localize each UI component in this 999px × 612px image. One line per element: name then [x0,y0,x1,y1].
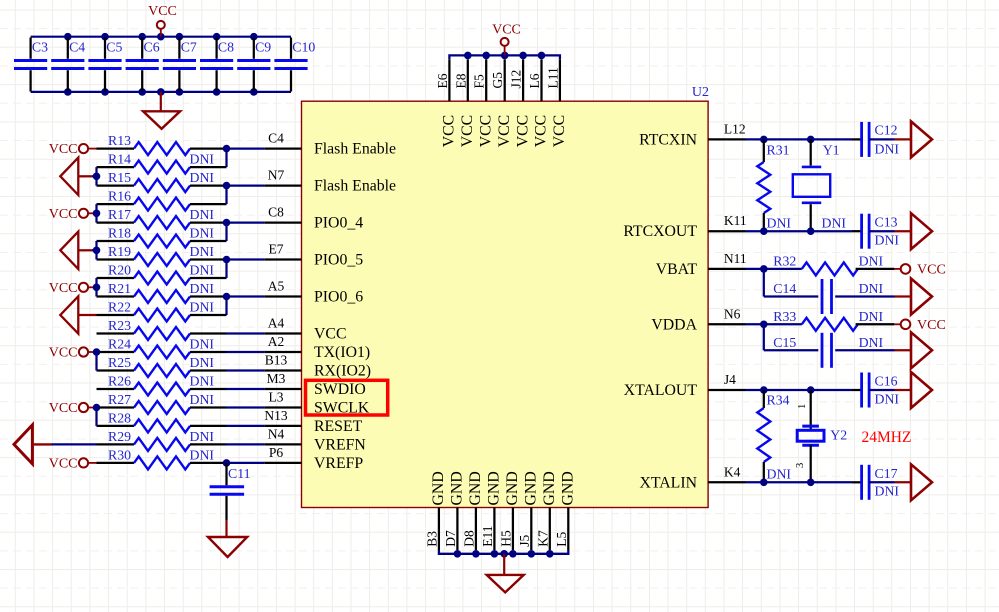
svg-text:DNI: DNI [875,142,900,157]
svg-text:R28: R28 [108,410,131,425]
svg-text:C3: C3 [32,40,48,55]
svg-text:J12: J12 [509,70,524,89]
pin L3 (SWCLK) [264,390,370,417]
svg-text:VCC: VCC [514,115,531,147]
pin K7 (GND) [535,471,558,550]
capacitor C4 [51,38,85,92]
svg-text:C12: C12 [875,123,898,138]
svg-text:VCC: VCC [917,318,946,333]
svg-text:GND: GND [504,471,521,505]
svg-text:VCC: VCC [441,115,458,147]
wire C12 to port [869,138,911,140]
svg-text:RX(IO2): RX(IO2) [314,363,371,380]
svg-text:PIO0_5: PIO0_5 [314,252,363,269]
svg-text:E8: E8 [453,73,468,88]
svg-text:GND: GND [467,471,484,505]
svg-text:U2: U2 [692,85,709,100]
pin E11 (GND) [480,471,503,550]
resistor R14 [97,152,227,174]
svg-text:XTALOUT: XTALOUT [624,382,698,399]
svg-text:TX(IO1): TX(IO1) [314,344,370,361]
svg-text:R26: R26 [108,374,131,389]
pin A2 (TX(IO1)) [264,334,370,361]
wire net N7 (pair junction) [223,182,265,204]
svg-text:C4: C4 [69,40,85,55]
svg-text:C13: C13 [875,215,898,230]
resistor R18 [97,226,227,248]
svg-text:Flash Enable: Flash Enable [314,178,396,195]
wire net L3 [227,406,265,408]
capacitor C6 [126,38,160,92]
svg-text:R25: R25 [108,355,131,370]
svg-text:F5: F5 [472,74,487,89]
svg-text:DNI: DNI [822,216,847,231]
pin P6 (VREFP) [264,445,363,472]
svg-text:DNI: DNI [190,392,215,407]
pin K11 (RTCXOUT) [623,213,746,240]
svg-text:DNI: DNI [875,233,900,248]
ground (bottom) [487,554,524,593]
wire net B13 [227,369,265,371]
port arrow (RTCXIN) [911,121,932,157]
svg-text:A5: A5 [268,279,285,294]
svg-text:VCC: VCC [496,115,513,147]
pin E7 (PIO0_5) [264,242,363,269]
svg-text:J5: J5 [517,535,532,547]
svg-text:DNI: DNI [875,392,900,407]
svg-text:DNI: DNI [875,484,900,499]
pin H5 (GND) [498,471,521,550]
svg-text:DNI: DNI [190,355,215,370]
capacitor C14 [764,279,884,314]
wire net A5 (pair junction) [223,293,265,315]
capacitor C3 [14,38,48,92]
VCC port (R32) [894,263,945,278]
svg-text:VCC: VCC [533,115,550,147]
pin E8 (VCC) [453,59,476,147]
svg-text:VCC: VCC [459,115,476,147]
wire C16 to port [869,389,911,391]
port arrow (C15) [911,332,932,368]
svg-text:GND: GND [449,471,466,505]
svg-text:C5: C5 [106,40,122,55]
input arrow port (R14/R15) [60,158,100,195]
svg-text:GND: GND [486,471,503,505]
svg-text:P6: P6 [269,445,284,460]
svg-text:VCC: VCC [492,23,521,38]
svg-text:M3: M3 [267,371,286,386]
pin number 3 (Y2) [795,463,806,468]
svg-text:DNI: DNI [859,335,884,350]
svg-text:GND: GND [430,471,447,505]
resistor R34 [757,390,791,482]
svg-text:R14: R14 [108,152,131,167]
svg-text:C9: C9 [255,40,271,55]
pin L5 (GND) [554,471,577,550]
svg-text:C8: C8 [268,205,284,220]
svg-text:DNI: DNI [859,281,884,296]
svg-text:N4: N4 [268,426,285,441]
svg-text:R27: R27 [108,392,131,407]
svg-text:DNI: DNI [767,467,792,482]
svg-text:C16: C16 [875,374,898,389]
pin C8 (PIO0_4) [264,205,363,232]
svg-text:DNI: DNI [190,263,215,278]
svg-text:VCC: VCC [314,326,346,343]
wire GND bottom bus [439,550,568,558]
wire net P6 [227,462,265,464]
svg-text:PIO0_6: PIO0_6 [314,289,363,306]
svg-text:Flash Enable: Flash Enable [314,141,396,158]
VCC port (R20/R21) [49,278,101,297]
svg-text:Y1: Y1 [823,143,840,158]
svg-text:B3: B3 [424,531,439,547]
svg-text:N11: N11 [724,251,747,266]
wire C17 to port [869,481,911,483]
svg-text:R34: R34 [767,393,790,408]
wire net VBAT [746,265,802,296]
svg-text:L11: L11 [545,67,560,88]
pin A4 (VCC) [264,316,346,343]
wire net N13 [227,425,265,427]
svg-text:K11: K11 [724,213,747,228]
pin M3 (SWDIO) [264,371,366,398]
port arrow (C14) [911,279,932,315]
svg-text:C7: C7 [181,40,197,55]
svg-text:C17: C17 [875,466,898,481]
capacitor C5 [88,38,122,92]
wire net RTCXIN [746,136,862,144]
capacitor C7 [163,38,197,92]
svg-text:DNI: DNI [190,300,215,315]
pin J4 (XTALOUT) [624,372,746,399]
resistor R33 [773,309,894,331]
pin K4 (XTALIN) [639,464,745,491]
crystal Y1 [793,139,847,231]
svg-text:R24: R24 [108,337,131,352]
wire net N4 [227,443,265,445]
pin N11 (VBAT) [656,251,747,278]
svg-text:R16: R16 [108,189,131,204]
resistor R28 [97,410,227,432]
resistor R24 [97,337,227,359]
svg-text:C11: C11 [228,466,251,481]
input arrow port (R22) [60,296,96,333]
pin J5 (GND) [517,471,540,550]
capacitor C9 [237,38,271,92]
svg-text:VCC: VCC [917,263,946,278]
svg-text:VREFN: VREFN [314,436,366,453]
svg-text:R13: R13 [108,133,131,148]
svg-text:DNI: DNI [190,226,215,241]
resistor R27 [97,392,227,414]
svg-text:L5: L5 [554,532,569,547]
svg-text:PIO0_4: PIO0_4 [314,215,363,232]
svg-text:VCC: VCC [49,401,78,416]
svg-text:VCC: VCC [551,115,568,147]
wire net VDDA [746,321,802,351]
svg-text:L12: L12 [724,121,746,136]
svg-text:A2: A2 [268,334,285,349]
svg-text:DNI: DNI [190,170,215,185]
svg-text:DNI: DNI [190,207,215,222]
svg-text:DNI: DNI [190,374,215,389]
svg-text:DNI: DNI [190,152,215,167]
svg-text:RTCXIN: RTCXIN [639,131,697,148]
svg-text:VDDA: VDDA [651,316,697,333]
wire C15 to port [835,349,911,351]
svg-text:1: 1 [797,404,808,409]
pin D7 (GND) [443,471,466,550]
VCC port (R13) [49,142,97,157]
svg-text:24MHZ: 24MHZ [862,429,912,446]
pin C4 (Flash Enable) [264,131,396,158]
svg-text:GND: GND [560,471,577,505]
svg-text:VCC: VCC [49,281,78,296]
pin N13 (RESET) [264,408,362,435]
svg-text:R22: R22 [108,300,131,315]
svg-text:DNI: DNI [190,337,215,352]
svg-text:DNI: DNI [859,309,884,324]
resistor R16 [97,189,227,211]
svg-text:DNI: DNI [859,253,884,268]
svg-text:VCC: VCC [49,207,78,222]
svg-text:C8: C8 [218,40,234,55]
crystal Y2 [797,390,847,482]
pin N6 (VDDA) [651,306,745,333]
capacitor C10 [274,38,315,92]
wire net XTALOUT [746,386,862,394]
input arrow port (R29) [14,425,97,464]
capacitor C13 [862,214,900,249]
wire net C4 (pair junction) [223,145,265,167]
wire junction (VREFP/C11) [223,459,231,467]
svg-text:G5: G5 [490,72,505,89]
svg-text:L3: L3 [269,390,284,405]
wire C14 to port [835,295,911,297]
VCC port (R24/R25) [49,346,101,371]
VCC port (R33) [894,318,945,333]
port arrow (XTALIN) [911,464,932,500]
pin A5 (PIO0_6) [264,279,363,306]
svg-text:N13: N13 [264,408,287,423]
svg-text:R33: R33 [773,309,796,324]
VCC port (R30) [49,456,97,471]
resistor R21 [97,281,227,303]
svg-text:C6: C6 [144,40,160,55]
svg-text:C15: C15 [773,335,796,350]
wire net E7 (pair junction) [223,256,265,278]
svg-text:DNI: DNI [190,244,215,259]
pin N7 (Flash Enable) [264,168,396,195]
svg-text:B13: B13 [265,353,288,368]
svg-text:E11: E11 [480,526,495,547]
svg-text:H5: H5 [498,530,513,547]
VCC power port (top) [492,23,521,56]
svg-text:VCC: VCC [49,142,78,157]
pin F5 (VCC) [472,59,495,147]
svg-text:VCC: VCC [148,4,177,19]
svg-text:DNI: DNI [190,447,215,462]
resistor R32 [773,253,894,275]
svg-text:A4: A4 [268,316,285,331]
svg-text:N6: N6 [724,306,741,321]
svg-text:VCC: VCC [49,456,78,471]
wire net RTCXOUT [746,227,862,235]
VCC port (R16/R17) [49,204,101,223]
ground (cap bank) [143,92,180,129]
wire C13 to port [869,230,911,232]
wire net A2 [227,351,265,353]
wire net C8 (pair junction) [223,219,265,241]
capacitor C8 [200,38,234,92]
resistor R29 [97,429,227,451]
pin D8 (GND) [461,471,484,550]
svg-text:GND: GND [541,471,558,505]
svg-text:N7: N7 [268,168,285,183]
svg-text:J4: J4 [724,372,736,387]
wire net XTALIN [746,479,862,487]
wire VCC rail (cap bank top) [31,33,291,41]
pin E6 (VCC) [435,59,458,147]
IC U2 body [302,85,710,508]
svg-text:DNI: DNI [767,216,792,231]
pin N4 (VREFN) [264,426,366,453]
svg-text:RTCXOUT: RTCXOUT [623,223,697,240]
pin B13 (RX(IO2)) [264,353,371,380]
svg-text:D7: D7 [443,530,458,547]
wire net A4 [227,332,265,334]
svg-text:SWDIO: SWDIO [314,381,366,398]
svg-text:Y2: Y2 [830,428,847,443]
label 24MHZ [862,429,912,446]
svg-text:R23: R23 [108,318,131,333]
pin B3 (GND) [424,471,447,550]
VCC power port (cap bank) [148,4,177,37]
svg-text:3: 3 [795,463,806,468]
resistor R15 [97,170,227,192]
resistor R19 [97,244,227,266]
svg-text:C14: C14 [773,281,796,296]
pin number 1 (Y2) [797,404,808,409]
input arrow port (R18/R19) [60,232,100,269]
capacitor C11 [210,463,251,521]
svg-text:GND: GND [523,471,540,505]
pin L12 (RTCXIN) [639,121,746,148]
svg-text:R19: R19 [108,244,131,259]
wire net M3 [227,388,265,390]
svg-text:R31: R31 [767,143,790,158]
resistor R13 [97,133,227,155]
resistor R31 [757,139,791,231]
resistor R23 [97,318,227,340]
svg-text:VREFP: VREFP [314,455,363,472]
resistor R30 [97,447,227,469]
svg-text:XTALIN: XTALIN [639,474,697,491]
pin L11 (VCC) [545,59,568,147]
svg-text:R21: R21 [108,281,131,296]
svg-text:VCC: VCC [49,346,78,361]
svg-text:DNI: DNI [190,429,215,444]
svg-text:C10: C10 [292,40,315,55]
capacitor C12 [862,122,900,157]
svg-text:E6: E6 [435,73,450,88]
svg-text:VBAT: VBAT [656,261,698,278]
resistor R17 [97,207,227,229]
resistor R26 [97,374,227,396]
svg-text:C4: C4 [268,131,284,146]
svg-text:DNI: DNI [190,281,215,296]
pin L6 (VCC) [527,59,550,147]
resistor R25 [97,355,227,377]
svg-text:R20: R20 [108,263,131,278]
svg-text:E7: E7 [269,242,284,257]
port arrow (XTALOUT) [911,372,932,408]
svg-text:VCC: VCC [477,115,494,147]
svg-text:R15: R15 [108,170,131,185]
capacitor C16 [862,373,900,408]
svg-text:L6: L6 [527,73,542,88]
wire GND rail (cap bank bottom) [31,88,291,96]
capacitor C17 [862,465,900,500]
svg-text:RESET: RESET [314,418,363,435]
svg-text:R30: R30 [108,447,131,462]
highlight box SWDIO/SWCLK [306,380,388,415]
svg-text:R17: R17 [108,207,131,222]
svg-text:D8: D8 [461,530,476,547]
resistor R20 [97,263,227,285]
ground (C11) [208,520,247,557]
svg-text:K7: K7 [535,530,550,547]
pin G5 (VCC) [490,59,513,147]
wire VCC top bus [449,52,560,60]
resistor R22 [97,300,227,322]
svg-text:K4: K4 [724,464,741,479]
svg-text:R18: R18 [108,226,131,241]
capacitor C15 [764,333,884,368]
port arrow (RTCXOUT) [911,213,932,249]
pin J12 (VCC) [509,59,532,147]
svg-text:R32: R32 [773,253,796,268]
svg-text:R29: R29 [108,429,131,444]
VCC port (R27/R28) [49,401,101,426]
